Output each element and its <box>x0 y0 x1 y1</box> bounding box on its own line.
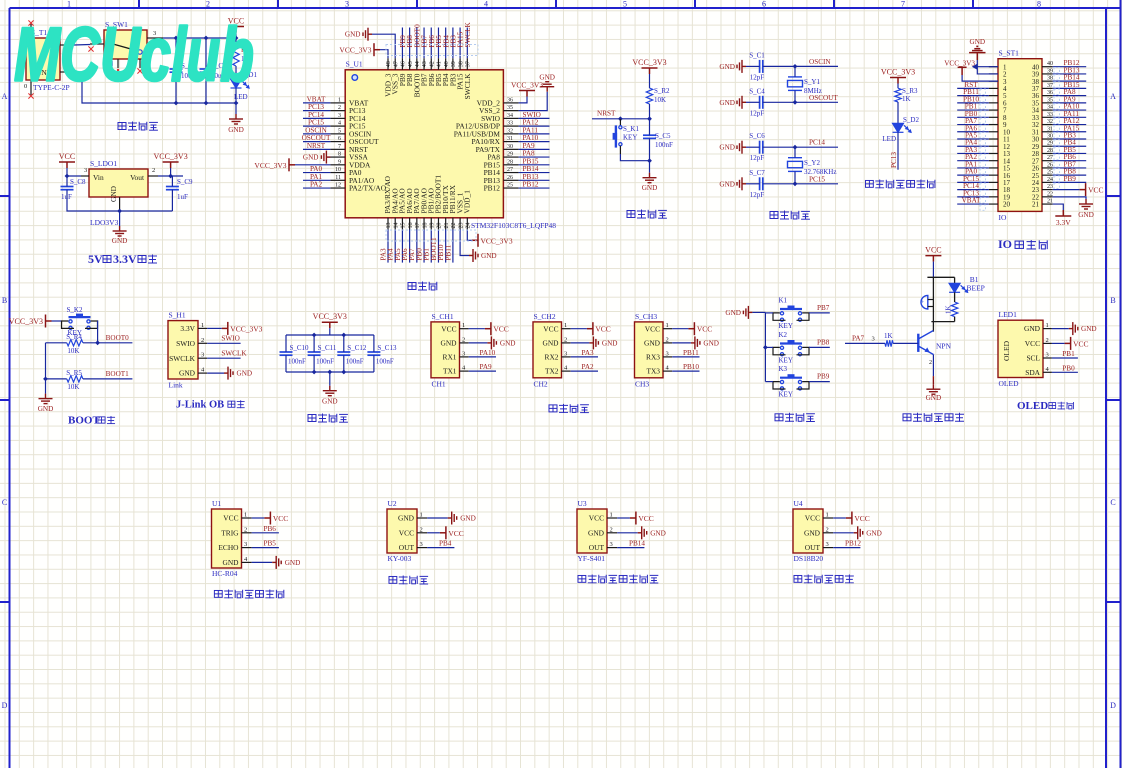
power VCC_3V3 at U1 pin24 VDD_1 <box>467 230 513 247</box>
svg-text:28: 28 <box>1047 148 1053 154</box>
junction <box>234 101 239 106</box>
svg-text:PB5: PB5 <box>264 540 277 548</box>
svg-text:34: 34 <box>507 113 513 119</box>
svg-text:S_C12: S_C12 <box>347 344 367 352</box>
junction <box>117 209 122 214</box>
power 3.3V at ST1 pin21 <box>1053 204 1072 227</box>
svg-text:VCC: VCC <box>697 325 712 334</box>
svg-text:VCC_3V3: VCC_3V3 <box>9 317 43 326</box>
wire and net label PB7 <box>1053 160 1087 168</box>
junction arrow <box>972 64 978 70</box>
wire and net label PA5 <box>394 230 403 263</box>
U1 right pins 36-25 <box>454 97 519 192</box>
svg-text:3: 3 <box>872 336 875 343</box>
wire and net label PA6 <box>957 124 989 132</box>
CH3 pins 1-4 <box>644 322 672 376</box>
connector S_H1 Link <box>168 311 198 390</box>
svg-text:B: B <box>2 296 7 305</box>
wire BOOT0 row and net label <box>46 334 133 343</box>
svg-text:GND: GND <box>222 558 239 567</box>
capacitor S_C13 100nF <box>367 344 397 366</box>
svg-text:GND: GND <box>1024 324 1041 333</box>
svg-text:6: 6 <box>762 0 766 9</box>
svg-text:3: 3 <box>201 352 204 359</box>
svg-text:VCC: VCC <box>645 324 660 333</box>
power port VCC_3V3 (LDO output) <box>163 162 179 168</box>
svg-text:S_C5: S_C5 <box>655 132 671 140</box>
wire and net label PB12 <box>833 540 861 548</box>
wire and net label BOOT1 <box>430 230 439 263</box>
svg-text:1K: 1K <box>884 332 893 340</box>
svg-text:GND: GND <box>644 339 661 348</box>
junction <box>43 376 48 381</box>
svg-text:GND: GND <box>642 184 658 192</box>
ground at CH3 pin2 <box>672 336 719 349</box>
svg-text:2: 2 <box>564 336 567 343</box>
svg-text:S_C9: S_C9 <box>177 178 193 186</box>
wire and net label PB15 <box>519 157 550 165</box>
capacitor S_C7 12pF <box>749 169 765 199</box>
svg-text:IO: IO <box>999 213 1007 222</box>
wire and net label PA7 <box>408 230 417 263</box>
svg-text:38: 38 <box>458 61 464 67</box>
ground (alarm) <box>926 384 940 394</box>
connector S_CH1 <box>431 312 460 389</box>
junction <box>204 101 209 106</box>
wire VCC to R3 <box>897 84 899 89</box>
svg-text:YF-S401: YF-S401 <box>578 554 606 563</box>
ground <box>229 114 243 124</box>
wire S_C10 leads <box>285 335 287 372</box>
ground above ST1 pins 1-2 <box>969 38 985 67</box>
svg-text:2: 2 <box>201 337 204 344</box>
svg-text:VCC_3V3: VCC_3V3 <box>481 236 513 245</box>
svg-text:2: 2 <box>1046 337 1049 344</box>
svg-text:39: 39 <box>451 61 457 67</box>
power VCC at CH2 pin1 <box>571 322 611 335</box>
svg-text:S_LDO1: S_LDO1 <box>90 159 117 168</box>
svg-text:3: 3 <box>462 350 465 357</box>
wire and net label PA2 <box>957 153 989 161</box>
svg-text:1: 1 <box>826 512 829 519</box>
wire and net label PB14 <box>1053 74 1087 82</box>
svg-text:PB12: PB12 <box>484 184 501 193</box>
svg-text:22: 22 <box>1047 191 1053 197</box>
power VCC at CH3 pin1 <box>672 322 712 335</box>
junction <box>174 36 179 41</box>
wire PC14 row <box>746 146 838 148</box>
svg-text:2: 2 <box>338 105 341 111</box>
wire NRST node down to key <box>619 119 621 126</box>
svg-text:24: 24 <box>466 223 472 229</box>
svg-text:17: 17 <box>415 223 421 229</box>
caption 晶振电路 <box>770 211 810 220</box>
junction <box>327 370 332 375</box>
caption 霍尔模块 <box>389 575 428 584</box>
caption OLED显示屏 <box>1017 400 1073 412</box>
svg-text:20: 20 <box>437 223 443 229</box>
svg-text:26: 26 <box>507 175 513 181</box>
svg-text:LED: LED <box>882 135 896 143</box>
caption 按键电路 <box>775 413 815 422</box>
junction <box>793 100 798 105</box>
wire and net label VBAT <box>303 95 330 103</box>
wire and net label PB6 <box>1053 153 1087 161</box>
svg-text:3: 3 <box>826 541 829 548</box>
ground <box>113 226 127 236</box>
svg-text:OUT: OUT <box>399 543 415 552</box>
capacitor S_C12 100nF <box>337 344 367 366</box>
wire and net label PA12 <box>1053 117 1087 125</box>
wire SW1 pin3 to VCC rail <box>163 37 236 39</box>
svg-text:21: 21 <box>444 223 450 229</box>
wire and net label PC15 <box>957 175 989 183</box>
svg-text:100nF: 100nF <box>655 141 673 149</box>
svg-text:GND: GND <box>719 99 735 107</box>
svg-text:S_R3: S_R3 <box>902 87 918 95</box>
svg-text:GND: GND <box>112 237 128 245</box>
U4 pins <box>804 512 833 553</box>
svg-text:32: 32 <box>507 128 513 134</box>
svg-text:1: 1 <box>610 512 613 519</box>
module U4 DS18B20 <box>793 499 823 563</box>
wire and net label PA9 <box>469 363 496 371</box>
wire and net label PB8 <box>406 28 414 59</box>
svg-text:22: 22 <box>451 223 457 229</box>
svg-text:27: 27 <box>1047 155 1053 161</box>
junction <box>647 158 652 163</box>
wire and net label SWIO <box>519 111 550 119</box>
svg-text:S_H1: S_H1 <box>169 311 186 320</box>
wire and net label PA6 <box>401 230 410 263</box>
wire and net label PA8 <box>519 150 550 158</box>
wire and net label PA3 <box>957 146 989 154</box>
resistor R1 1K <box>233 46 250 66</box>
wire and net label BOOT0 <box>413 24 421 58</box>
svg-text:GND: GND <box>539 74 555 82</box>
wire C5 leads <box>649 119 651 135</box>
svg-text:S_CH2: S_CH2 <box>534 312 556 321</box>
svg-text:4: 4 <box>484 0 488 9</box>
svg-text:LED1: LED1 <box>999 310 1018 319</box>
wire LDO Vout to VCC_3V3 <box>158 175 183 177</box>
svg-text:GND: GND <box>804 528 821 537</box>
svg-text:5: 5 <box>338 128 341 134</box>
selection mask marks <box>386 45 478 56</box>
svg-text:25: 25 <box>507 183 513 189</box>
svg-text:K3: K3 <box>779 365 788 373</box>
caption 电源电路 <box>118 122 158 131</box>
svg-text:1: 1 <box>244 512 247 519</box>
svg-text:S_C8: S_C8 <box>70 178 86 186</box>
svg-text:OUT: OUT <box>805 543 821 552</box>
svg-text:PB6: PB6 <box>264 525 277 533</box>
svg-text:3: 3 <box>84 167 87 174</box>
svg-text:GND: GND <box>719 180 735 188</box>
wire and net label OSCOUT <box>302 134 331 142</box>
svg-text:1: 1 <box>201 322 204 329</box>
capacitor S_C1 12pF <box>749 51 765 81</box>
svg-text:1uF: 1uF <box>177 193 188 201</box>
wire BOOT1 row and net label <box>46 370 133 379</box>
svg-text:NPN: NPN <box>936 342 952 351</box>
svg-text:J-Link OB: J-Link OB <box>176 400 224 411</box>
capacitor S_C3 10uF <box>200 62 228 80</box>
svg-text:GND: GND <box>303 154 319 162</box>
svg-text:1: 1 <box>666 322 669 329</box>
svg-text:36: 36 <box>1047 90 1053 96</box>
U3 pins <box>588 512 617 553</box>
svg-text:4: 4 <box>338 121 341 127</box>
ground at ST1 pin22 <box>1053 197 1094 219</box>
caption J-Link OB接口 <box>176 400 245 411</box>
wire and net label PB10 <box>672 363 699 371</box>
svg-text:10K: 10K <box>67 383 79 391</box>
push button K1 KEY <box>773 296 809 330</box>
wire and net label NRST <box>303 142 330 150</box>
svg-text:27: 27 <box>507 167 513 173</box>
svg-text:STM32F103C8T6_LQFP48: STM32F103C8T6_LQFP48 <box>471 221 556 230</box>
caption 超声波测距模块 <box>214 589 283 598</box>
svg-text:2: 2 <box>152 167 155 174</box>
wire VCC to R2 <box>649 74 651 88</box>
wire T1 pin1 to SW1 pin2 <box>74 44 90 47</box>
svg-text:VCC_3V3: VCC_3V3 <box>153 152 187 161</box>
wire and net label PB4 <box>427 540 454 548</box>
svg-text:100nF: 100nF <box>288 358 306 366</box>
connector S_T1 TYPE-C-2P <box>24 24 74 95</box>
U1 top pins 48-37 <box>384 58 472 99</box>
junction <box>618 116 623 121</box>
wire and net label PB10 <box>957 95 989 103</box>
caption 滤波电路 <box>308 414 348 423</box>
capacitor S_C5 100nF <box>643 132 673 149</box>
wire and net label PB3 <box>449 28 457 59</box>
svg-text:GND: GND <box>1078 211 1094 219</box>
svg-text:GND: GND <box>109 185 118 202</box>
svg-text:C: C <box>2 498 7 507</box>
capacitor S_C6 12pF <box>749 132 765 162</box>
wire and net label PA3 <box>571 349 598 357</box>
svg-text:29: 29 <box>1047 141 1053 147</box>
caption 复位电路 <box>627 210 667 219</box>
wire S_C12 leads <box>343 335 345 372</box>
svg-text:12pF: 12pF <box>750 154 765 162</box>
ground (S_C1 row) <box>719 60 746 73</box>
wire and net label PA7 <box>957 117 989 125</box>
wire and net label PA10 <box>519 134 550 142</box>
ground at U1 pin8 VSSA <box>303 151 330 164</box>
H1 pins 1-4 <box>169 322 207 378</box>
ground at U1 pin4 <box>252 556 301 569</box>
svg-text:KEY: KEY <box>779 356 793 364</box>
regulator S_LDO1 LDO3V3 <box>81 159 158 227</box>
svg-text:21: 21 <box>1047 199 1053 205</box>
svg-text:GND: GND <box>500 339 516 347</box>
caption 5V转3.3V电路 <box>88 252 157 266</box>
wire and net label PB5 <box>252 540 279 548</box>
wire and net label PC14 <box>303 111 330 119</box>
svg-text:CH1: CH1 <box>432 380 446 389</box>
svg-text:VCC_3V3: VCC_3V3 <box>254 161 286 170</box>
caption 程序运行指示灯 <box>865 179 934 188</box>
wire ground to keys vertical <box>752 312 765 381</box>
svg-text:OUT: OUT <box>589 543 605 552</box>
wire and net label PA10 <box>1053 103 1087 111</box>
svg-text:PB14: PB14 <box>629 540 645 548</box>
svg-text:3.3V: 3.3V <box>1056 218 1071 227</box>
svg-text:32: 32 <box>1047 119 1053 125</box>
svg-text:S_ST1: S_ST1 <box>999 49 1020 58</box>
wire and net label PA11 <box>519 126 550 134</box>
svg-text:PB10: PB10 <box>683 363 699 371</box>
svg-text:PB11: PB11 <box>444 244 452 260</box>
U1 pins <box>218 512 251 568</box>
svg-text:2: 2 <box>929 360 932 366</box>
power VCC at U2 pin2 <box>427 526 464 539</box>
wire VCC stem to rail <box>329 328 331 335</box>
wire and net label PB7 <box>421 28 429 59</box>
svg-text:S_R2: S_R2 <box>654 87 670 95</box>
svg-text:10: 10 <box>335 167 341 173</box>
svg-text:OLED: OLED <box>999 379 1020 388</box>
svg-text:CH3: CH3 <box>635 380 649 389</box>
wire cap C2 branch <box>175 38 177 69</box>
svg-text:U1: U1 <box>212 499 221 508</box>
svg-text:PB0: PB0 <box>1062 364 1075 372</box>
svg-text:GND: GND <box>719 144 735 152</box>
wire and net label PA5 <box>957 132 989 140</box>
svg-text:2: 2 <box>420 526 423 533</box>
wire ground to ST1 pin1 <box>977 66 998 68</box>
power VCC_3V3 at U1 pin36 VDD_2 <box>511 81 543 103</box>
caption BOOT电路 <box>68 415 115 427</box>
wire and net label PB5 <box>435 28 443 59</box>
junction <box>793 64 798 69</box>
wire and net label PA4 <box>957 139 989 147</box>
svg-text:S_R4: S_R4 <box>66 333 82 341</box>
switch S_SW1 <box>90 20 163 68</box>
wire and net label SWCLK <box>464 22 472 59</box>
svg-text:5V: 5V <box>88 252 103 266</box>
power VCC at U3 pin1 <box>617 512 654 525</box>
svg-text:35: 35 <box>1047 97 1053 103</box>
transistor Q1 NPN <box>918 331 951 355</box>
caption 声光报警电路 <box>903 413 964 422</box>
svg-text:GND: GND <box>926 394 942 402</box>
svg-text:SWIO: SWIO <box>176 339 196 348</box>
svg-text:GND: GND <box>179 369 196 378</box>
svg-text:44: 44 <box>415 61 421 67</box>
capacitor S_C4 12pF <box>749 87 765 117</box>
power port VCC <box>228 27 244 33</box>
svg-text:SWCLK: SWCLK <box>464 22 472 48</box>
svg-text:VBAT: VBAT <box>962 197 981 205</box>
svg-text:VCC: VCC <box>805 514 820 523</box>
wire and net label PB3 <box>1053 132 1087 140</box>
svg-text:46: 46 <box>401 61 407 67</box>
svg-text:2: 2 <box>244 526 247 533</box>
push button K2 KEY <box>773 331 809 365</box>
svg-text:K1: K1 <box>779 296 788 304</box>
wire and net label PA15 <box>1053 124 1087 132</box>
wire and net label PA11 <box>1053 110 1087 118</box>
svg-text:19: 19 <box>429 223 435 229</box>
svg-text:KEY: KEY <box>779 322 793 330</box>
wire PC15 row <box>746 183 838 185</box>
resistor S_R4 10K <box>66 333 83 355</box>
svg-text:VCC: VCC <box>589 514 604 523</box>
svg-text:VCC: VCC <box>1088 186 1103 195</box>
svg-text:U3: U3 <box>578 499 587 508</box>
svg-text:PB4: PB4 <box>439 540 452 548</box>
wire and net label PA8 <box>1053 88 1087 96</box>
svg-text:PB9: PB9 <box>1064 175 1077 183</box>
junction <box>793 181 798 186</box>
svg-text:38: 38 <box>1047 76 1053 82</box>
svg-text:31: 31 <box>507 136 513 142</box>
wire and net label PA3 <box>379 230 388 263</box>
wire and net label PC13 <box>957 189 989 197</box>
svg-text:1: 1 <box>564 322 567 329</box>
svg-text:32.768KHz: 32.768KHz <box>804 168 836 176</box>
svg-text:RX3: RX3 <box>646 353 660 362</box>
svg-text:7: 7 <box>338 144 341 150</box>
junction <box>234 36 239 41</box>
svg-text:3.3V: 3.3V <box>180 324 195 333</box>
wire and net label PA9 <box>1053 95 1087 103</box>
wire filter bottom rail <box>286 371 374 373</box>
svg-text:VCC: VCC <box>925 246 941 255</box>
svg-text:2: 2 <box>206 0 210 9</box>
svg-text:30: 30 <box>507 144 513 150</box>
svg-text:GND: GND <box>1081 325 1097 333</box>
wire and net label PB10 <box>437 230 446 263</box>
wire D1 to GND <box>235 88 237 114</box>
wire key bottom to C5 bottom <box>619 146 621 154</box>
svg-text:S_R5: S_R5 <box>66 369 82 377</box>
junction <box>168 174 173 179</box>
svg-text:S_K1: S_K1 <box>623 125 639 133</box>
wire and net label PB4 <box>1053 139 1087 147</box>
wire emitter to ground <box>929 355 933 385</box>
svg-text:PC15: PC15 <box>809 175 825 183</box>
connector S_CH3 <box>635 312 664 389</box>
svg-text:2: 2 <box>610 526 613 533</box>
svg-text:SCL: SCL <box>1026 354 1040 363</box>
ground at U3 pin2 <box>617 526 666 539</box>
U1 bottom pins 13-24 <box>383 175 471 230</box>
power VCC at OLED pin2 <box>1052 337 1089 350</box>
svg-text:GND: GND <box>588 528 605 537</box>
LED S_D2 <box>882 116 919 143</box>
svg-text:41: 41 <box>437 61 443 67</box>
svg-text:PA7: PA7 <box>852 335 865 343</box>
svg-text:GND: GND <box>719 63 735 71</box>
power VCC_3V3 (BOOT) <box>46 315 52 328</box>
svg-text:LDO3V3: LDO3V3 <box>90 218 119 227</box>
svg-text:3: 3 <box>564 350 567 357</box>
wire and net label PA9 <box>519 142 550 150</box>
svg-text:GND: GND <box>866 529 882 537</box>
svg-text:S_U1: S_U1 <box>346 60 363 69</box>
power VCC_3V3 (reset) <box>642 68 658 74</box>
svg-text:PB11: PB11 <box>683 349 699 357</box>
svg-text:OLED: OLED <box>1002 340 1011 361</box>
U1 left pins 1-12 <box>330 97 386 192</box>
svg-text:VCC_3V3: VCC_3V3 <box>511 81 543 90</box>
crystal S_Y2 32.768KHz <box>788 158 837 176</box>
